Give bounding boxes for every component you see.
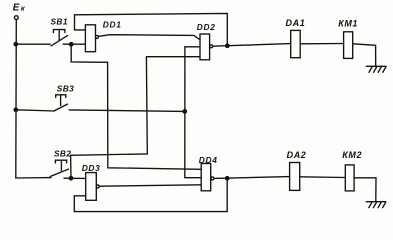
wire KM2 to ground xyxy=(354,178,376,202)
wire SB1 branch to DD4 input xyxy=(71,44,201,169)
wire SB3 left xyxy=(16,110,55,111)
wire DA2 to KM2 xyxy=(300,176,346,179)
wire feedback DD2 to DD1 xyxy=(75,13,228,45)
switch SB2 contact xyxy=(50,169,68,176)
wire reset line DD2 to DD4 xyxy=(185,47,201,178)
node DD4 output junction xyxy=(226,177,229,180)
node DD2 output junction xyxy=(226,44,229,47)
wire SB2 branch to DD2 input xyxy=(71,57,200,179)
switch SB1 plunger xyxy=(53,30,65,33)
relay coil KM1 xyxy=(344,32,353,59)
svg-text:DD3: DD3 xyxy=(82,163,101,173)
node SB1 branch junction xyxy=(70,43,73,46)
svg-text:SB1: SB1 xyxy=(51,17,68,27)
gate DD3 xyxy=(86,173,97,201)
switch SB2 plunger xyxy=(55,160,66,163)
switch SB3 contact xyxy=(55,104,68,111)
node SB3-reset junction xyxy=(183,110,186,113)
svg-text:SB2: SB2 xyxy=(54,148,71,158)
wire SB3 right to reset line xyxy=(69,110,185,112)
wire SB1 left xyxy=(16,43,50,45)
svg-text:DA1: DA1 xyxy=(286,18,306,28)
wire DD3 output to DD4 xyxy=(99,185,201,186)
wire DD4 output to DA2 xyxy=(214,177,290,179)
amplifier DA1 xyxy=(291,30,301,57)
wire SB1 right to DD1 xyxy=(63,43,85,45)
wire DD1 output to DD2 xyxy=(99,35,200,40)
node Ek terminal xyxy=(14,16,18,20)
switch SB3 plunger xyxy=(56,95,66,98)
node rail-SB3 junction xyxy=(14,108,17,111)
wire left rail xyxy=(16,20,51,178)
switch SB1 contact xyxy=(51,36,68,46)
svg-text:E: E xyxy=(13,2,20,13)
gate DD2 xyxy=(200,34,210,60)
svg-text:DD4: DD4 xyxy=(199,155,218,165)
node SB2 branch junction xyxy=(69,177,72,180)
svg-text:SB3: SB3 xyxy=(57,84,74,94)
wire SB2 right to DD3 xyxy=(64,177,86,179)
svg-text:КМ1: КМ1 xyxy=(338,19,358,29)
wire DA1 to KM1 xyxy=(300,43,343,45)
svg-text:КМ2: КМ2 xyxy=(342,150,362,160)
node rail-SB1 junction xyxy=(14,43,17,46)
wire DD2 output to DA1 xyxy=(213,44,291,47)
svg-text:DD2: DD2 xyxy=(197,22,216,32)
ground (KM1) xyxy=(366,65,385,67)
ground (KM2) xyxy=(366,201,385,203)
wire KM1 to ground xyxy=(353,44,376,67)
gate DD4 xyxy=(201,164,211,191)
wire feedback DD4 to DD3 xyxy=(74,178,227,211)
relay coil KM2 xyxy=(345,165,354,191)
svg-text:DD1: DD1 xyxy=(103,20,122,30)
svg-text:к: к xyxy=(21,3,26,12)
gate DD1 xyxy=(85,25,95,52)
svg-text:DA2: DA2 xyxy=(287,150,307,160)
amplifier DA2 xyxy=(290,163,300,191)
